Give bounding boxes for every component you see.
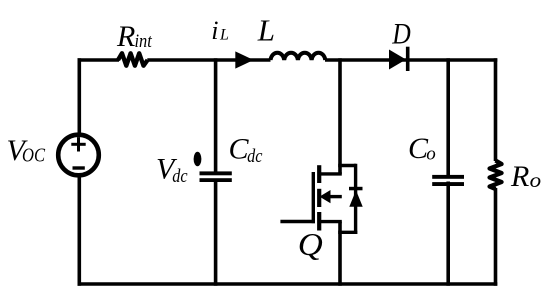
svg-text:R: R [116, 20, 135, 53]
svg-text:o: o [426, 143, 436, 164]
svg-text:L: L [219, 27, 229, 44]
svg-text:OC: OC [22, 145, 46, 167]
svg-text:R: R [510, 160, 529, 193]
svg-text:i: i [211, 16, 218, 45]
svg-text:D: D [391, 18, 411, 51]
svg-text:o: o [530, 168, 542, 192]
svg-text:int: int [135, 31, 153, 52]
svg-text:dc: dc [247, 146, 263, 167]
svg-text:Q: Q [298, 227, 323, 262]
svg-text:dc: dc [172, 166, 188, 187]
svg-text:L: L [257, 12, 275, 47]
